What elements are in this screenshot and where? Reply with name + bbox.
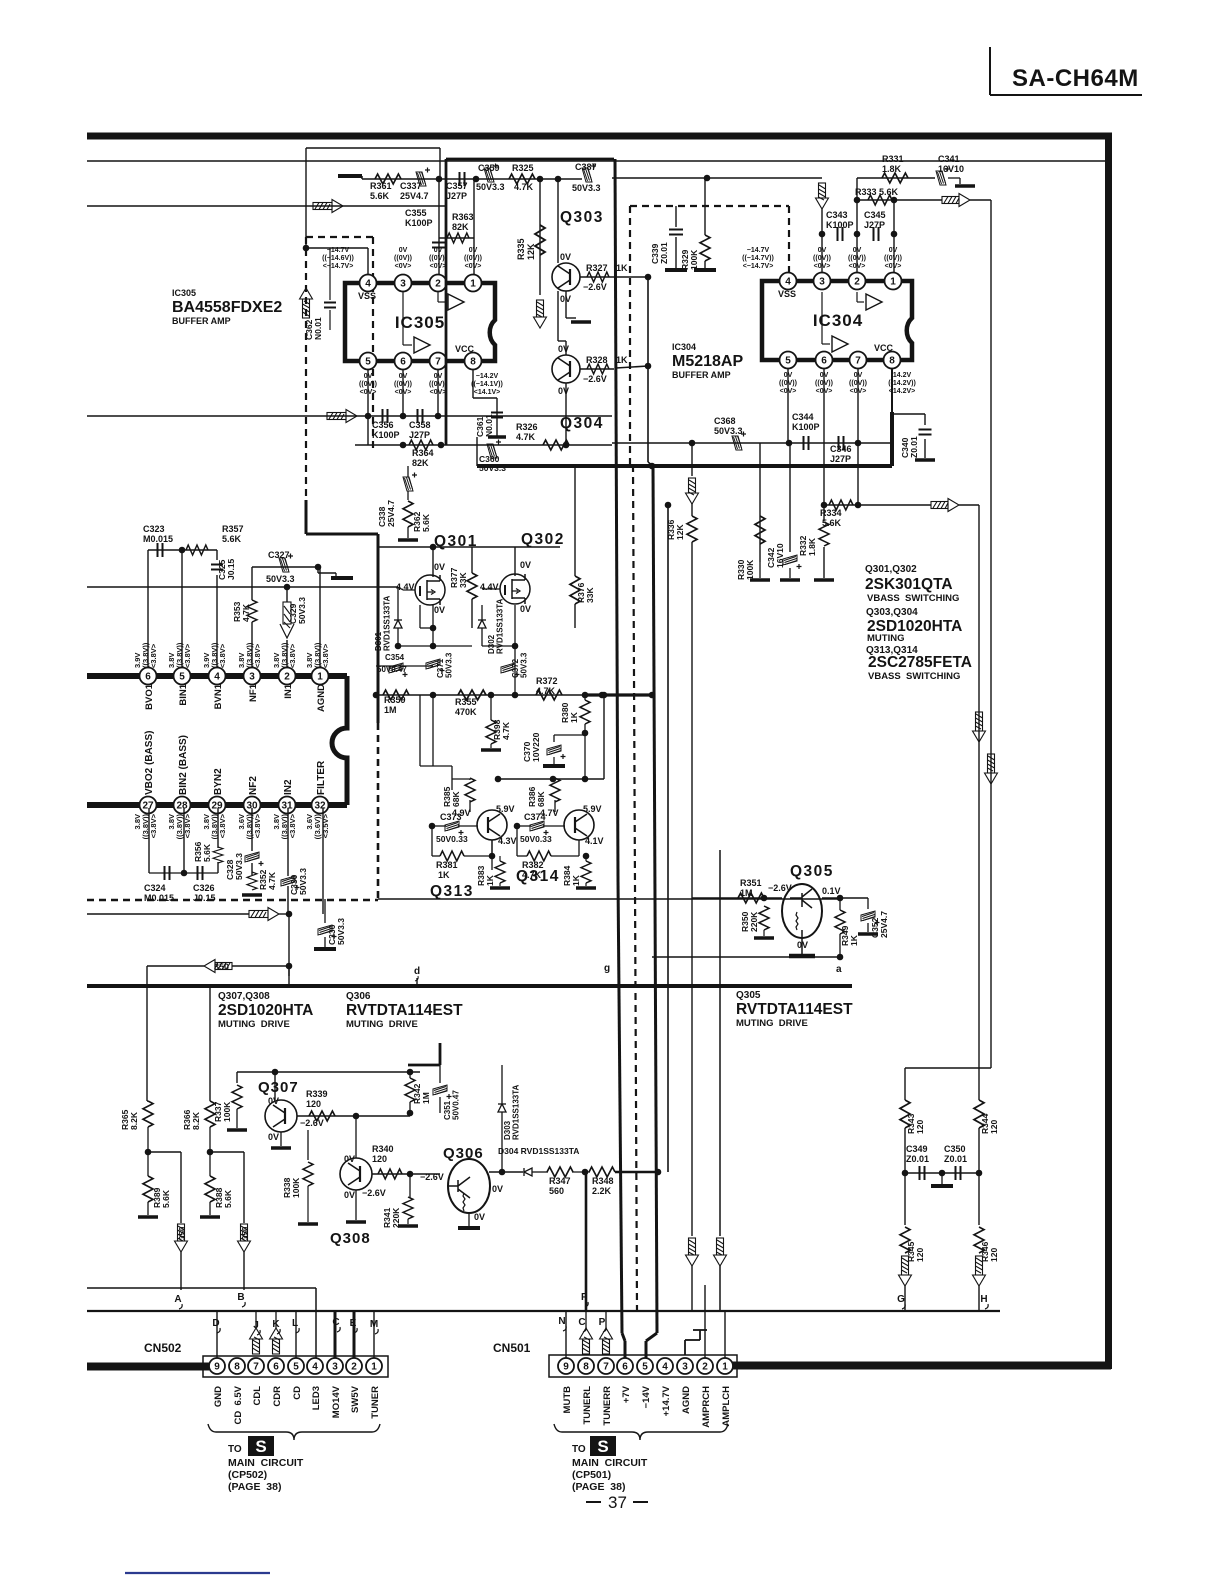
capacitor C358 xyxy=(418,409,423,423)
svg-text:E: E xyxy=(350,1318,357,1329)
svg-text:<3.8V>: <3.8V> xyxy=(288,643,297,668)
svg-text:<3.8V>: <3.8V> xyxy=(218,643,227,668)
capacitor C350 xyxy=(956,1166,961,1180)
svg-text:0V: 0V xyxy=(268,1096,279,1106)
diode D304 xyxy=(524,1168,532,1176)
R329 label xyxy=(680,249,699,270)
svg-text:<3.8V>: <3.8V> xyxy=(218,813,227,838)
svg-text:120: 120 xyxy=(915,1248,925,1262)
svg-text:R357: R357 xyxy=(222,524,244,534)
svg-text:MO14V: MO14V xyxy=(331,1385,342,1418)
svg-text:Q308: Q308 xyxy=(330,1230,371,1247)
wire y899 row xyxy=(378,898,842,900)
svg-text:12K: 12K xyxy=(526,243,536,260)
IC304 pin 7 xyxy=(850,352,867,369)
svg-text:2SC2785FETA: 2SC2785FETA xyxy=(868,654,972,671)
R335 label xyxy=(516,238,536,260)
svg-text:16V10: 16V10 xyxy=(938,164,964,174)
svg-text:B: B xyxy=(237,1292,244,1303)
CN501 pin 6 xyxy=(617,1358,633,1374)
svg-text:1.8K: 1.8K xyxy=(882,164,902,174)
C340 label xyxy=(900,436,919,458)
svg-text:CDR: CDR xyxy=(272,1386,283,1407)
resistor R334 xyxy=(829,500,853,510)
wire Q313 collector row xyxy=(498,695,604,779)
svg-text:IC304: IC304 xyxy=(672,342,696,352)
FET Q301 xyxy=(415,575,445,605)
svg-text:470K: 470K xyxy=(455,707,477,717)
svg-text:a: a xyxy=(836,964,842,975)
svg-text:N0.01: N0.01 xyxy=(484,414,494,437)
IC304 pin 4 xyxy=(780,273,797,290)
svg-text:NF2: NF2 xyxy=(248,776,259,795)
svg-text:3: 3 xyxy=(682,1361,688,1372)
R385 label xyxy=(442,786,461,807)
svg-text:VCC: VCC xyxy=(874,343,894,353)
svg-text:R326: R326 xyxy=(516,422,538,432)
svg-text:8.2K: 8.2K xyxy=(191,1111,201,1130)
CN502 pin 9 xyxy=(209,1358,225,1374)
svg-text:5: 5 xyxy=(785,355,791,366)
svg-text:82K: 82K xyxy=(412,458,429,468)
svg-text:Q305: Q305 xyxy=(736,990,761,1001)
wire mute right step xyxy=(905,1068,991,1100)
bus wire x668 xyxy=(667,505,669,1172)
resistor R344 xyxy=(974,1100,984,1128)
svg-text:R372: R372 xyxy=(536,676,558,686)
svg-text:1: 1 xyxy=(317,671,323,682)
IC305 pin 8 xyxy=(465,353,482,370)
R386 label xyxy=(527,786,546,807)
svg-text:6: 6 xyxy=(273,1361,279,1372)
capacitor C329 hatched arrow xyxy=(280,602,294,638)
R362 label xyxy=(412,511,431,532)
R343 label xyxy=(906,1113,925,1134)
resistor R383 xyxy=(495,861,505,883)
ground under R384 xyxy=(576,886,596,890)
CN502 wires above xyxy=(217,1311,374,1358)
svg-text:−2.6V: −2.6V xyxy=(583,374,607,384)
node K xyxy=(272,1319,280,1334)
wire Q308 collector xyxy=(308,1116,356,1160)
svg-text:32: 32 xyxy=(314,800,326,811)
net arrow on y914 xyxy=(249,908,279,921)
svg-text:TUNER: TUNER xyxy=(370,1386,381,1419)
svg-text:R333 5.6K: R333 5.6K xyxy=(855,187,899,197)
svg-text:((−14.7V)): ((−14.7V)) xyxy=(742,255,774,262)
ground under R329 xyxy=(694,268,716,272)
capacitor C355 xyxy=(432,243,446,248)
svg-text:50V0.47: 50V0.47 xyxy=(377,665,407,674)
IC305 pin2 voltage xyxy=(429,247,447,270)
svg-text:MAIN CIRCUIT: MAIN CIRCUIT xyxy=(572,1457,648,1469)
svg-text:BVO1: BVO1 xyxy=(144,683,155,710)
capacitor C359 hatched xyxy=(484,164,498,183)
IC304 pin1 voltage xyxy=(884,247,902,270)
svg-text:37: 37 xyxy=(608,1493,627,1512)
R377 label xyxy=(449,567,468,588)
resistor R356 xyxy=(213,847,223,863)
C339 label xyxy=(650,242,669,264)
resistor R376 xyxy=(570,576,580,604)
R356 label xyxy=(193,841,212,862)
svg-text:0V: 0V xyxy=(268,1132,279,1142)
node D xyxy=(212,1318,220,1333)
R348 label xyxy=(592,1176,614,1196)
R338 label xyxy=(282,1177,301,1198)
svg-text:Z0.01: Z0.01 xyxy=(659,242,669,264)
svg-text:1M: 1M xyxy=(740,888,753,898)
R353 label xyxy=(232,601,251,622)
svg-text:C344: C344 xyxy=(792,412,814,422)
diode D301 xyxy=(394,620,402,628)
junction C327 xyxy=(315,564,322,571)
C341 label xyxy=(938,154,964,174)
wire Q307 top row xyxy=(237,1072,420,1100)
svg-text:C373: C373 xyxy=(440,812,462,822)
svg-text:Q305: Q305 xyxy=(790,863,834,880)
CN501 pin 5 xyxy=(637,1358,653,1374)
wire IC304 pin1 column xyxy=(893,200,895,272)
svg-text:120: 120 xyxy=(989,1120,999,1134)
main frame bottom rule xyxy=(87,1310,1000,1312)
svg-text:VBASS SWITCHING: VBASS SWITCHING xyxy=(868,671,960,682)
C330 label xyxy=(289,868,308,895)
svg-text:2: 2 xyxy=(351,1361,357,1372)
svg-text:CD: CD xyxy=(292,1386,303,1400)
CN501 pin 2 xyxy=(697,1358,713,1374)
pin29 voltage xyxy=(202,813,227,839)
svg-text:MAIN CIRCUIT: MAIN CIRCUIT xyxy=(228,1457,304,1469)
IC304 opamp triangle A xyxy=(866,294,882,310)
C342 label xyxy=(766,543,785,568)
node P xyxy=(599,1317,607,1332)
bus wire x653 thick xyxy=(646,466,657,1358)
svg-text:1: 1 xyxy=(890,276,896,287)
svg-text:8: 8 xyxy=(470,356,476,367)
svg-text:NF1: NF1 xyxy=(248,683,259,702)
net arrow up CN502 pin7 xyxy=(250,1328,263,1354)
svg-text:MUTB: MUTB xyxy=(562,1386,573,1414)
svg-text:0V: 0V xyxy=(399,247,408,254)
IC305 pin6 voltage xyxy=(394,373,412,396)
resistor R364 xyxy=(409,440,433,450)
svg-text:120: 120 xyxy=(915,1120,925,1134)
C346 label xyxy=(830,444,852,464)
svg-text:50V3.3: 50V3.3 xyxy=(445,652,454,678)
svg-text:R359: R359 xyxy=(384,695,406,705)
svg-text:VSS: VSS xyxy=(358,291,376,301)
svg-text:C: C xyxy=(332,1317,339,1328)
svg-text:4.7K: 4.7K xyxy=(516,432,536,442)
R339 label xyxy=(306,1089,328,1109)
junctions R334 xyxy=(821,502,862,509)
bus wire horizontal y161 xyxy=(87,160,1105,162)
R372 label xyxy=(536,676,558,696)
svg-text:−2.6V: −2.6V xyxy=(300,1118,324,1128)
svg-text:50V3.3: 50V3.3 xyxy=(476,182,505,192)
resistor R330 xyxy=(755,516,765,544)
svg-text:R351: R351 xyxy=(740,878,762,888)
resistor R359 xyxy=(383,690,409,700)
resistor R362 xyxy=(403,501,413,527)
C324 label xyxy=(144,883,174,903)
bass IC pin 27 xyxy=(140,797,157,814)
svg-text:120: 120 xyxy=(372,1154,387,1164)
CN502 pin 2 xyxy=(346,1358,362,1374)
IC305 pin4 voltage xyxy=(322,247,354,270)
svg-text:1.8K: 1.8K xyxy=(807,537,817,556)
svg-text:50V3.3: 50V3.3 xyxy=(336,918,346,945)
wire Q301 source net xyxy=(376,605,472,666)
svg-text:M: M xyxy=(370,1319,378,1330)
C357 label xyxy=(446,181,468,201)
IC304 pin 8 xyxy=(884,352,901,369)
svg-text:D: D xyxy=(212,1318,219,1329)
ground under R341 xyxy=(407,1219,409,1224)
svg-text:0V: 0V xyxy=(558,386,569,396)
node H xyxy=(980,1294,988,1309)
svg-text:1M: 1M xyxy=(421,1092,431,1104)
pin30 voltage xyxy=(237,813,262,839)
svg-text:C368: C368 xyxy=(714,416,736,426)
svg-text:5.9V: 5.9V xyxy=(496,804,515,814)
wire feedback loop above IC305 xyxy=(306,148,440,248)
R384 label xyxy=(562,865,581,886)
svg-text:350: 350 xyxy=(214,962,229,972)
IC304 pin 3 xyxy=(814,273,831,290)
R365 label xyxy=(120,1109,139,1130)
svg-text:C359: C359 xyxy=(478,163,500,173)
IC304 pin5 voltage xyxy=(779,372,797,395)
bus wire y695 thick xyxy=(584,693,655,696)
ground under R350 xyxy=(754,936,774,940)
footer blue rule xyxy=(125,1572,270,1574)
svg-text:50V3.3: 50V3.3 xyxy=(234,853,244,880)
sub-circuit box around Q303 xyxy=(446,159,614,445)
C325 label xyxy=(217,558,236,580)
svg-text:<3.8V>: <3.8V> xyxy=(253,813,262,838)
svg-text:Q302: Q302 xyxy=(521,531,565,548)
R336 label xyxy=(666,519,685,540)
input wire y587 to Q301 gate xyxy=(87,586,398,588)
ground under R362 xyxy=(407,527,409,538)
capacitor C337 xyxy=(416,168,430,187)
svg-text:IN2: IN2 xyxy=(283,779,294,795)
svg-text:9: 9 xyxy=(563,1361,569,1372)
connector CN502 body xyxy=(203,1356,388,1377)
Q304 emitter wire xyxy=(565,383,567,445)
pin28 voltage xyxy=(167,813,192,839)
junction R366 R388 xyxy=(207,1149,214,1156)
R351 label xyxy=(740,878,762,898)
svg-text:SA-CH64M: SA-CH64M xyxy=(1012,65,1139,92)
IC305 pin3 voltage xyxy=(394,247,412,270)
ground under C352 xyxy=(858,932,878,936)
D301 label xyxy=(374,595,392,651)
svg-text:R331: R331 xyxy=(882,154,904,164)
bus wire x648 mute link xyxy=(616,277,653,466)
resistor R382 xyxy=(527,851,551,861)
capacitor C368 hatched xyxy=(732,432,746,451)
IC304 pin 5 xyxy=(780,352,797,369)
svg-text:SW5V: SW5V xyxy=(350,1385,361,1413)
thick feed line from CN501 to frame xyxy=(731,1362,1111,1370)
svg-text:C345: C345 xyxy=(864,210,886,220)
svg-text:8: 8 xyxy=(889,355,895,366)
capacitor C325 xyxy=(211,565,223,570)
wire R334 row xyxy=(824,504,931,506)
svg-text:−2.6V: −2.6V xyxy=(583,282,607,292)
C345 label xyxy=(864,210,886,230)
svg-text:4.3V: 4.3V xyxy=(498,836,517,846)
svg-text:Q303,Q304: Q303,Q304 xyxy=(866,607,918,618)
capacitor C372 hatched xyxy=(501,663,520,677)
svg-text:MUTING: MUTING xyxy=(867,633,904,644)
wire muting bus 2 xyxy=(959,505,979,1068)
svg-text:Q303: Q303 xyxy=(560,209,604,226)
capacitor C324 xyxy=(165,866,170,880)
svg-text:AGND: AGND xyxy=(681,1386,692,1414)
svg-text:IN1: IN1 xyxy=(283,683,294,699)
svg-text:R327: R327 xyxy=(586,263,608,273)
wire IC304 pin7 column xyxy=(857,369,859,505)
wire F column xyxy=(585,1172,588,1311)
C344 label xyxy=(792,412,820,432)
transistor Q313 xyxy=(477,810,507,840)
svg-text:<3.8V>: <3.8V> xyxy=(149,643,158,668)
resistor R326 xyxy=(543,440,569,450)
svg-text:((0V)): ((0V)) xyxy=(464,255,482,262)
svg-text:5: 5 xyxy=(365,356,371,367)
resistor R351 xyxy=(738,893,764,903)
svg-text:L: L xyxy=(292,1318,298,1329)
svg-text:D304 RVD1SS133TA: D304 RVD1SS133TA xyxy=(498,1146,579,1156)
svg-text:MUTING DRIVE: MUTING DRIVE xyxy=(218,1019,290,1030)
svg-text:0V: 0V xyxy=(434,562,445,572)
svg-text:C337: C337 xyxy=(400,181,422,191)
R359 label xyxy=(384,695,406,715)
R363 label xyxy=(452,212,474,232)
svg-text:((0V)): ((0V)) xyxy=(884,255,902,262)
svg-text:<3.8V>: <3.8V> xyxy=(149,813,158,838)
R337 label xyxy=(213,1101,232,1122)
resistor R343 xyxy=(900,1100,910,1128)
svg-text:9: 9 xyxy=(214,1361,220,1372)
svg-text:C341: C341 xyxy=(938,154,960,164)
resistor R332 xyxy=(819,522,829,546)
svg-text:−2.6V: −2.6V xyxy=(768,883,792,893)
svg-text:+7V: +7V xyxy=(621,1385,632,1403)
svg-text:6: 6 xyxy=(400,356,406,367)
svg-text:−14.2V: −14.2V xyxy=(476,373,499,380)
svg-text:5.6K: 5.6K xyxy=(222,534,242,544)
op-amp IC IC304 body xyxy=(762,281,912,360)
stubs above CN501 arrows xyxy=(586,1311,606,1328)
svg-text:−2.6V: −2.6V xyxy=(362,1188,386,1198)
net arrow 350 left xyxy=(204,960,232,973)
svg-text:−2.6V: −2.6V xyxy=(420,1172,444,1182)
R361 label xyxy=(370,181,392,201)
wire pin2 column xyxy=(438,179,440,274)
bass IC pin 6 xyxy=(140,668,157,685)
resistor R366 xyxy=(205,1101,215,1127)
IC304 pin 1 xyxy=(885,273,902,290)
R389 label xyxy=(152,1187,171,1208)
capacitor C373 hatched xyxy=(445,821,464,835)
bus wire x720 xyxy=(719,850,721,1311)
wire C368 C344 row y443 xyxy=(612,442,892,444)
ground under C370 xyxy=(543,764,565,768)
net arrow down R335 xyxy=(534,300,547,328)
C356 label xyxy=(372,420,400,440)
bass IC pin 30 xyxy=(244,797,261,814)
CN501 brace xyxy=(554,1424,728,1440)
wire IC304 pin3 to opamp B xyxy=(822,292,830,344)
resistor R348 xyxy=(589,1167,615,1177)
svg-text:VCC: VCC xyxy=(455,344,475,354)
svg-text:J: J xyxy=(253,1320,259,1331)
svg-text:K100P: K100P xyxy=(405,218,433,228)
pin1 voltage xyxy=(305,642,330,668)
svg-text:C323: C323 xyxy=(143,524,165,534)
svg-text:4: 4 xyxy=(785,276,791,287)
junctions y695 xyxy=(373,692,656,699)
ground under C339 xyxy=(665,268,687,272)
svg-text:MUTING DRIVE: MUTING DRIVE xyxy=(346,1019,418,1030)
Q308 emitter ground xyxy=(355,1190,357,1220)
svg-text:33K: 33K xyxy=(585,587,595,603)
C355 label xyxy=(405,208,433,228)
R366 label xyxy=(182,1109,201,1130)
svg-text:33K: 33K xyxy=(458,572,468,588)
capacitor C387 hatched xyxy=(582,164,596,183)
svg-text:1K: 1K xyxy=(849,934,859,946)
svg-text:R339: R339 xyxy=(306,1089,328,1099)
R398 label xyxy=(492,719,511,740)
capacitor C371 hatched xyxy=(426,659,445,673)
capacitor C361 xyxy=(491,413,503,418)
svg-text:2.2K: 2.2K xyxy=(592,1186,612,1196)
svg-text:6: 6 xyxy=(145,671,151,682)
capacitor C360 hatched xyxy=(487,440,501,459)
svg-text:<−14.7V>: <−14.7V> xyxy=(323,263,354,270)
bass IC top pin bar xyxy=(87,673,347,679)
svg-text:27: 27 xyxy=(142,800,154,811)
svg-text:4: 4 xyxy=(365,278,371,289)
svg-text:R355: R355 xyxy=(455,697,477,707)
resistor R336 xyxy=(687,516,697,542)
wire Q306 collector row xyxy=(489,1171,523,1173)
capacitor C370 hatched xyxy=(547,745,566,759)
C323 label xyxy=(143,524,173,544)
svg-text:K100P: K100P xyxy=(372,430,400,440)
transistor Q314 xyxy=(564,810,594,840)
resistor R335 xyxy=(535,225,545,255)
wire IC305 pin4 top link xyxy=(306,248,368,274)
wire pin2 hatch column xyxy=(287,567,320,667)
svg-text:12K: 12K xyxy=(675,524,685,540)
IC305 pin 4 xyxy=(360,275,377,292)
IC304 pin6 voltage xyxy=(815,372,833,395)
svg-text:7: 7 xyxy=(435,356,441,367)
FET Q302 xyxy=(500,574,530,604)
svg-text:0V: 0V xyxy=(474,1212,485,1222)
C370 label xyxy=(522,732,541,762)
capacitor C356 xyxy=(383,409,388,423)
svg-text:((−14.1V)): ((−14.1V)) xyxy=(471,381,503,388)
stubs above CN502 arrows xyxy=(256,1311,276,1328)
